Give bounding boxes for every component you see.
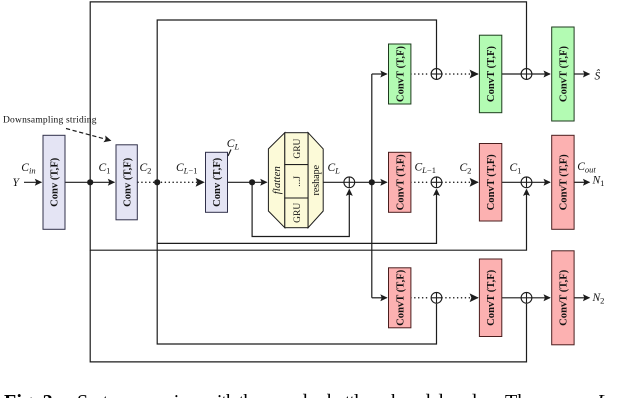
bottom convT block 1 xyxy=(389,268,411,328)
svg-text:C2: C2 xyxy=(140,162,152,176)
adder mid 1 xyxy=(344,177,355,188)
wire: skip j3 route to mid adder1 xyxy=(252,182,349,236)
svg-text:GRU: GRU xyxy=(293,203,303,223)
svg-text:N2: N2 xyxy=(592,292,605,306)
svg-text:ConvT (T,F): ConvT (T,F) xyxy=(559,154,570,211)
mid convT block 2 xyxy=(479,144,501,222)
wire: skip j1 bottom route to bottom adder2 xyxy=(90,250,526,362)
svg-text:N1: N1 xyxy=(592,175,605,189)
adder bottom 1 xyxy=(431,292,442,303)
svg-text:Downsampling striding: Downsampling striding xyxy=(3,116,97,126)
wire: bottom block2 to bottom adder2 xyxy=(502,297,521,299)
mid convT block 3 xyxy=(552,135,574,229)
svg-text:CL−1: CL−1 xyxy=(415,162,436,176)
caption xyxy=(4,391,608,403)
green convT block 2 xyxy=(479,35,501,113)
svg-text:Cin: Cin xyxy=(21,162,35,176)
svg-text:flatten: flatten xyxy=(271,166,283,195)
wire: mid adder1 to mid block1 xyxy=(355,181,387,183)
svg-text:Conv (T,F): Conv (T,F) xyxy=(50,157,61,207)
wire: mid adder3 to mid block3 xyxy=(532,181,550,183)
wire: bottom adder2 to bottom block3 xyxy=(532,297,550,299)
wire: bottom block1 dotted to bottom adder1 xyxy=(411,297,430,299)
svg-text:C2: C2 xyxy=(460,162,472,176)
svg-text:The aurora: The aurora xyxy=(505,391,592,398)
svg-text:ConvT (T,F): ConvT (T,F) xyxy=(486,154,497,211)
svg-text:Conv (T,F): Conv (T,F) xyxy=(212,157,223,207)
svg-text:System overview with the encod: System overview with the encoder, bottle… xyxy=(77,391,501,398)
junction j1 xyxy=(87,179,93,185)
svg-text:ConvT (T,F): ConvT (T,F) xyxy=(486,269,497,326)
svg-text:L: L xyxy=(596,391,608,398)
adder bottom 2 xyxy=(521,292,532,303)
svg-text:reshape: reshape xyxy=(311,164,322,195)
wire: skip j1 top route to green adder2 xyxy=(90,2,526,182)
svg-text:GRU: GRU xyxy=(293,138,303,158)
adder mid 3 xyxy=(521,177,532,188)
green convT block 1 xyxy=(389,44,411,104)
svg-text:ConvT (T,F): ConvT (T,F) xyxy=(395,45,406,102)
wire: mid out arrow xyxy=(574,181,589,183)
junction branch xyxy=(369,179,375,185)
svg-text:ConvT (T,F): ConvT (T,F) xyxy=(395,269,406,326)
svg-text:C1: C1 xyxy=(510,162,522,176)
wire: j2 dotted to enc block3 xyxy=(138,181,204,183)
wire: green adder2 to green block3 xyxy=(532,73,550,75)
svg-text:...J: ...J xyxy=(293,176,303,187)
bottom convT block 2 xyxy=(479,259,501,337)
svg-text:Y: Y xyxy=(13,177,21,189)
wire: skip j2 down route to mid adder2 xyxy=(157,182,436,243)
adder green 1 xyxy=(431,69,442,80)
mid convT block 1 xyxy=(389,152,411,212)
bottleneck middle cell ...J xyxy=(285,165,308,198)
wire: skip j2 bottom route to bottom adder1 xyxy=(157,243,436,344)
svg-text:ConvT (T,F): ConvT (T,F) xyxy=(486,45,497,102)
wire: bottleneck out to mid adder1 xyxy=(323,181,344,183)
wire: skip j1 down route to mid adder3 xyxy=(90,182,526,250)
pointer line for CL label xyxy=(228,150,231,157)
svg-text:Fig. 3.: Fig. 3. xyxy=(4,391,58,398)
encoder conv block 1 xyxy=(43,135,65,229)
bottom convT block 3 xyxy=(552,251,574,345)
wire: green block1 dotted to green adder1 xyxy=(411,73,430,75)
svg-text:CL: CL xyxy=(227,138,240,152)
wire: enc block1 to enc block2 xyxy=(65,181,114,183)
wire: bottom adder1 dotted to bottom block2 xyxy=(442,297,478,299)
wire: mid adder2 dotted to mid block2 xyxy=(442,181,478,183)
bottleneck GRU bottom cell xyxy=(285,198,308,228)
wire: green out arrow xyxy=(574,73,589,75)
junction j3 xyxy=(249,179,255,185)
wire: enc block3 to bottleneck xyxy=(228,181,267,183)
wire: branch to bottom block1 xyxy=(372,297,387,299)
wire: green adder1 dotted to green block2 xyxy=(442,73,478,75)
svg-text:C1: C1 xyxy=(99,162,111,176)
bottleneck flatten trapezoid xyxy=(268,133,284,228)
svg-text:ConvT (T,F): ConvT (T,F) xyxy=(559,45,570,102)
adder mid 2 xyxy=(431,177,442,188)
svg-text:Conv (T,F): Conv (T,F) xyxy=(122,157,133,207)
svg-text:Ŝ: Ŝ xyxy=(595,68,601,82)
svg-text:ConvT (T,F): ConvT (T,F) xyxy=(395,154,406,211)
encoder conv block 2 xyxy=(116,145,137,220)
adder green 2 xyxy=(521,69,532,80)
bottleneck GRU top cell xyxy=(285,133,308,165)
svg-text:CL−1: CL−1 xyxy=(176,162,197,176)
dashed annotation arrow xyxy=(66,129,111,141)
wire: skip j2 top route to green adder1 xyxy=(157,20,436,182)
svg-text:ConvT (T,F): ConvT (T,F) xyxy=(559,269,570,326)
encoder conv block 3 xyxy=(206,152,228,212)
bottleneck reshape trapezoid xyxy=(308,133,323,228)
wire: bottom out arrow xyxy=(574,297,589,299)
wire: mid block2 to mid adder3 xyxy=(502,181,521,183)
svg-text:CL: CL xyxy=(328,162,341,176)
wire: branch vertical xyxy=(371,74,373,298)
wire: input Y arrow xyxy=(24,181,41,183)
junction j2 xyxy=(154,179,160,185)
svg-text:Cout: Cout xyxy=(577,161,596,175)
green convT block 3 xyxy=(552,27,574,121)
wire: branch to green block1 xyxy=(372,73,387,75)
wire: green block2 to green adder2 xyxy=(502,73,521,75)
wire: mid block1 dotted to mid adder2 xyxy=(411,181,430,183)
